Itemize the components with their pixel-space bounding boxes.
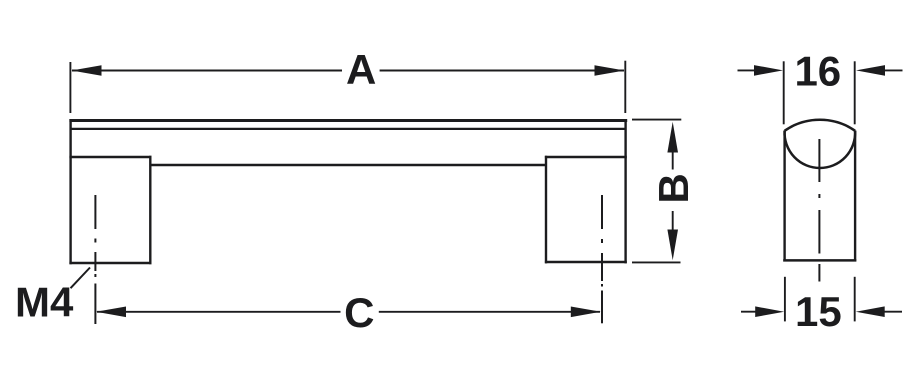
dimension 15 arrowhead right (856, 306, 885, 317)
side view right edge (854, 131, 856, 262)
side view center line (dash-dot) (818, 139, 820, 282)
dimension B line upper segment (672, 150, 674, 170)
dimension 16 extension line left (783, 61, 785, 124)
svg-text:B: B (650, 173, 697, 203)
dimension A arrowhead left (72, 65, 102, 76)
dimension 16 arrowhead left (754, 65, 783, 76)
dimension A extension line right (624, 61, 626, 113)
right post inner edge (545, 156, 547, 264)
dimension A arrowhead right (595, 65, 625, 76)
handle bar bottom line between posts (150, 164, 546, 167)
right post bottom line (545, 261, 627, 264)
dimension 15 tail right (883, 311, 902, 313)
handle bar inner line (71, 128, 626, 130)
dimension C line left segment (97, 311, 341, 313)
dimension 16 tail left (738, 69, 758, 71)
handle bar top line (69, 119, 627, 122)
dimension B extension line top (632, 119, 681, 121)
left post center line (dash-dot) (94, 195, 96, 324)
dimension 16 arrowhead right (856, 65, 885, 76)
dimension 15 extension line right (854, 277, 856, 322)
right post top line (545, 156, 627, 159)
left post bottom line (69, 262, 151, 265)
dimension 16 extension line right (854, 61, 856, 124)
dimension B extension line bottom (632, 261, 681, 263)
dimension B arrowhead top (667, 122, 678, 153)
dimension C arrowhead left (96, 307, 126, 318)
dimension A extension line left (69, 62, 71, 113)
svg-text:A: A (346, 46, 376, 93)
dimension 16 tail right (883, 69, 903, 71)
handle bar left edge / left post outer edge (69, 119, 71, 264)
side view top convex arc (785, 120, 856, 131)
right post center line (dash-dot) (601, 195, 603, 323)
dimension C line right segment (379, 311, 600, 313)
dimension A line right segment (380, 70, 624, 72)
dimension B arrowhead bottom (667, 230, 678, 261)
M4 leader line (71, 268, 91, 289)
dimension 15 tail left (741, 311, 758, 313)
handle bar right edge / right post outer edge (624, 119, 626, 263)
side view concave cope arc (785, 131, 856, 168)
svg-text:M4: M4 (15, 279, 74, 326)
side view left edge (783, 131, 785, 262)
dimension C arrowhead right (571, 307, 601, 318)
left post top line (69, 156, 151, 159)
dimension 15 arrowhead left (755, 306, 784, 317)
left post inner edge (149, 156, 151, 264)
svg-text:C: C (344, 289, 374, 336)
svg-text:15: 15 (795, 288, 842, 335)
side view bottom line (783, 259, 856, 262)
dimension 15 extension line left (784, 277, 786, 322)
dimension B line lower segment (672, 211, 674, 233)
dimension A line left segment (72, 70, 342, 72)
svg-text:16: 16 (794, 47, 841, 94)
